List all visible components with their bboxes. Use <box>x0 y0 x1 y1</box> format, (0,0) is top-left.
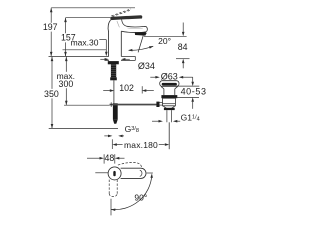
pull rod <box>113 80 115 103</box>
aerator outlet <box>135 32 147 36</box>
svg-text:48: 48 <box>105 153 115 163</box>
svg-text:Ø63: Ø63 <box>161 72 178 82</box>
dim max.300 <box>57 57 110 105</box>
svg-text:84: 84 <box>178 42 188 52</box>
pop-up linkage rod <box>110 102 157 107</box>
svg-text:G3/8: G3/8 <box>125 124 139 134</box>
tailpipe cone <box>163 106 175 110</box>
svg-text:20°: 20° <box>158 36 171 46</box>
20 deg stream line <box>138 36 143 53</box>
threaded shank <box>110 64 117 80</box>
dim 84 <box>144 23 190 69</box>
pop-up collar (dark) <box>161 95 177 98</box>
linkage nut at pop-up <box>156 102 162 107</box>
20 deg arc <box>129 46 153 50</box>
faucet body side view <box>108 20 126 57</box>
tailpipe G1 1/4 <box>167 110 172 149</box>
svg-text:Ø34: Ø34 <box>138 61 155 71</box>
svg-text:G11/4: G11/4 <box>181 113 200 123</box>
top view: lever <box>121 168 146 178</box>
dim 350 <box>44 57 118 129</box>
top view: 90 deg swivel arc <box>111 173 153 215</box>
svg-text:max.180: max.180 <box>124 140 158 150</box>
mounting deck cross-section <box>49 56 136 60</box>
fixing nut under deck <box>108 61 119 64</box>
spout <box>121 26 147 32</box>
svg-text:90°: 90° <box>134 193 147 203</box>
svg-text:350: 350 <box>44 89 59 99</box>
dim dia 63 <box>150 72 192 82</box>
top view: dim 48 <box>87 153 125 163</box>
svg-text:40-53: 40-53 <box>181 87 207 97</box>
dim max.30 <box>63 38 108 57</box>
top view: side leader line <box>95 172 108 174</box>
lever raised 20 deg (dashed) <box>111 9 131 17</box>
supply hose G3/8 fitting <box>113 103 118 124</box>
dim max.180 <box>112 139 169 150</box>
svg-text:max.30: max.30 <box>71 38 99 48</box>
top view: slot in circle <box>113 171 115 176</box>
top view: lever raised position (dashed) <box>118 162 142 167</box>
dim 102 <box>103 83 154 93</box>
top view: lever rotated down (dashed) <box>109 180 117 197</box>
pop-up body <box>161 86 178 95</box>
pop-up waste flange <box>160 81 179 87</box>
svg-text:300: 300 <box>59 79 74 89</box>
svg-text:102: 102 <box>119 83 134 93</box>
pop-up lower body <box>163 98 176 106</box>
lever handle (solid) <box>110 15 142 20</box>
dim 157 <box>61 18 110 57</box>
dim dia 34 <box>100 58 155 71</box>
label G3/8 with arrows <box>104 124 139 137</box>
svg-text:197: 197 <box>43 22 58 32</box>
top view: faucet body circle <box>108 167 121 180</box>
label G1 1/4 with arrows <box>152 113 200 123</box>
dim 197 <box>43 8 135 57</box>
dim 40-53 <box>175 77 206 109</box>
